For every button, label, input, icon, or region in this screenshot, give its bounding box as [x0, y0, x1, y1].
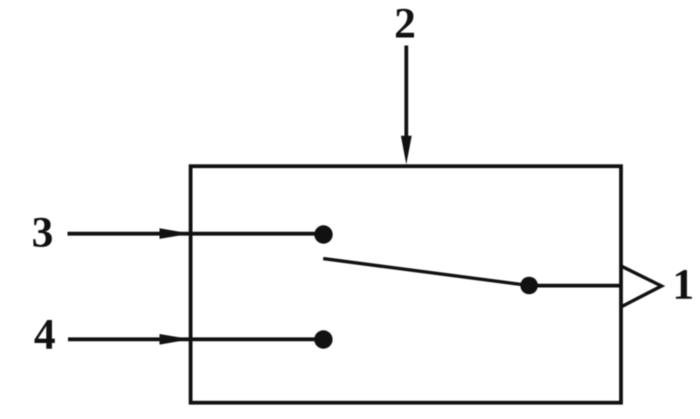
lead line 4 [68, 337, 316, 341]
switch body outline [191, 166, 621, 403]
arrowhead 4 [160, 334, 191, 345]
open arrowhead terminal 1 [621, 266, 661, 307]
switch lever [323, 259, 529, 286]
lead line 2 [404, 46, 408, 143]
svg-text:4: 4 [34, 311, 56, 359]
arrowhead 3 [160, 228, 191, 239]
common pole line [529, 284, 621, 288]
svg-text:3: 3 [32, 208, 54, 256]
svg-text:2: 2 [394, 0, 416, 48]
terminal dot 3 [314, 225, 332, 243]
common pole dot [520, 277, 538, 295]
arrowhead 2 [401, 136, 412, 165]
lead line 3 [68, 232, 317, 236]
svg-text:1: 1 [672, 261, 694, 309]
terminal dot 4 [314, 330, 332, 348]
